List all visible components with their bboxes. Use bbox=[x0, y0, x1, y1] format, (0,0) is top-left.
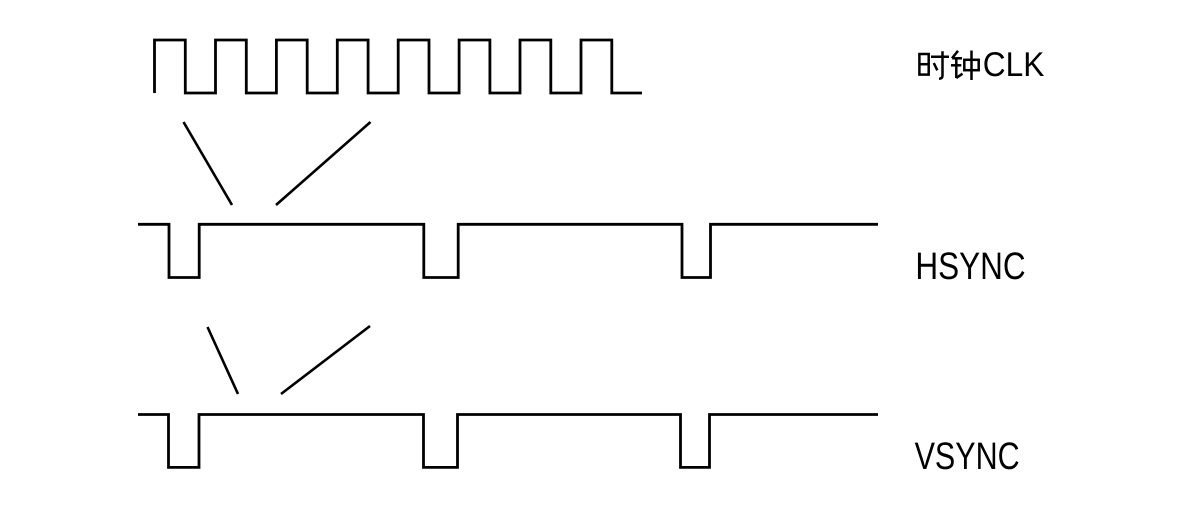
VSYNC waveform bbox=[138, 415, 878, 468]
clock CLK waveform bbox=[155, 40, 643, 93]
label glyph 时 (shi) bbox=[919, 51, 949, 79]
HSYNC waveform bbox=[138, 224, 878, 277]
leader line right (CLK to HSYNC) bbox=[276, 122, 371, 205]
label glyph 钟 (zhong) bbox=[951, 51, 979, 81]
leader line right (HSYNC to VSYNC) bbox=[281, 326, 370, 394]
svg-text:VSYNC: VSYNC bbox=[915, 435, 1020, 478]
leader line left (HSYNC to VSYNC) bbox=[208, 327, 239, 394]
leader line left (CLK to HSYNC) bbox=[184, 122, 233, 205]
svg-text:CLK: CLK bbox=[983, 46, 1045, 84]
svg-text:HSYNC: HSYNC bbox=[915, 245, 1025, 288]
